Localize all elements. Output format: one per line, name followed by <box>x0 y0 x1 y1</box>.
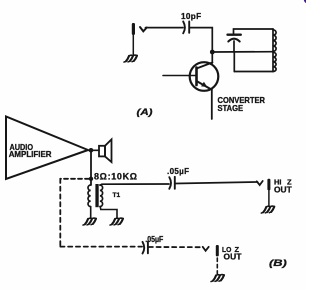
inductor L1 oscillator coil <box>273 29 276 72</box>
svg-text:.05µF: .05µF <box>167 167 189 176</box>
transistor Q1 emitter diagonal with arrow <box>197 81 212 90</box>
label (A) <box>137 107 153 118</box>
capacitor C4 .05uF <box>143 242 148 254</box>
wire HI Z terminal to ground <box>268 190 270 206</box>
wire from arrow to 10pF capacitor <box>146 27 184 29</box>
arrowhead at LO Z terminal <box>203 247 209 251</box>
svg-text:OUT: OUT <box>274 184 293 194</box>
svg-text:T1: T1 <box>113 192 121 199</box>
transformer T1 primary bottom lead <box>90 207 92 218</box>
variable capacitor C2 trimmer <box>228 35 241 52</box>
label 8ohm:10Kohm <box>94 171 137 181</box>
dashed wire down left side <box>59 179 61 247</box>
junction node dot at speaker feed <box>89 148 94 153</box>
audio amplifier triangle <box>6 117 88 180</box>
ground under transformer primary <box>83 218 96 225</box>
label .05uF bottom <box>145 235 163 244</box>
wire from amplifier apex to speaker <box>88 149 99 151</box>
svg-text:OUT: OUT <box>224 251 243 261</box>
LO Z output terminal bar <box>216 245 219 256</box>
transistor Q1 base bar <box>195 68 198 86</box>
wire tank left vertical <box>233 52 235 72</box>
label LO Z OUT <box>222 245 242 261</box>
corner speck artifact <box>304 0 306 3</box>
label CONVERTER STAGE <box>218 95 266 113</box>
ground under antenna terminal <box>124 55 137 62</box>
ground under transformer secondary <box>110 218 123 225</box>
svg-text:AMPLIFIER: AMPLIFIER <box>9 150 52 159</box>
label (B) <box>269 258 287 269</box>
transformer T1 secondary bottom lead <box>100 206 117 218</box>
label .05uF top <box>167 167 189 176</box>
speaker LS1 <box>99 139 112 162</box>
junction node dot for dashed tap <box>89 177 93 181</box>
label T1 <box>113 192 121 199</box>
label 10pF <box>181 12 202 21</box>
transformer T1 secondary winding <box>100 185 103 207</box>
svg-text:STAGE: STAGE <box>218 103 244 113</box>
label HI Z OUT <box>274 177 293 194</box>
wire emitter lead down <box>211 90 213 119</box>
arrowhead at HI Z terminal <box>257 181 263 185</box>
HI Z output terminal bar <box>267 179 270 190</box>
svg-text:10pF: 10pF <box>181 12 202 21</box>
svg-text:.05µF: .05µF <box>145 235 163 244</box>
label AUDIO AMPLIFIER <box>9 143 52 159</box>
dashed wire from junction left <box>60 178 89 180</box>
svg-text:8Ω:10KΩ: 8Ω:10KΩ <box>94 171 137 181</box>
wire collector lead down to transistor <box>211 52 213 63</box>
transformer T1 core <box>95 184 98 207</box>
wire from C3 to HI Z arrow <box>176 182 258 184</box>
wire transformer secondary to .05uF cap <box>100 184 169 185</box>
wire from junction down to transformer primary <box>90 150 92 185</box>
antenna terminal ground lead wire <box>132 35 134 55</box>
wire tank top rail <box>234 29 274 34</box>
junction node dot at collector <box>210 50 215 55</box>
capacitor C1 10pF <box>183 22 189 34</box>
wire tank bottom rail <box>234 71 273 73</box>
transistor Q1 collector diagonal <box>197 63 213 69</box>
dashed wire from C4 to LO Z arrow <box>149 246 203 248</box>
ground under HI Z terminal <box>261 206 274 213</box>
transistor Q1 base lead wire <box>163 75 197 77</box>
dashed wire bottom run to .05uF <box>60 246 142 248</box>
wire middle rail from junction to coil tap <box>212 51 273 53</box>
dashed wire LO Z terminal to ground <box>216 258 218 274</box>
arrowhead on antenna wire <box>140 27 147 31</box>
wire from 10pF to corner and down to collector junction <box>190 28 212 52</box>
transformer T1 primary winding <box>88 185 91 207</box>
svg-text:(A): (A) <box>137 107 153 118</box>
antenna input terminal bar <box>132 23 135 35</box>
capacitor C3 .05uF <box>169 177 175 189</box>
svg-text:(B): (B) <box>269 258 287 269</box>
ground under LO Z terminal <box>211 275 224 282</box>
transistor Q1 circle <box>190 62 219 91</box>
